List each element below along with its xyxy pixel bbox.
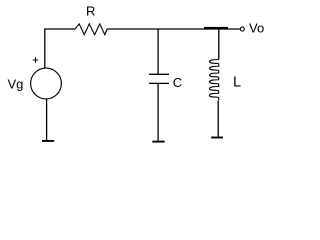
svg-text:C: C xyxy=(173,75,182,90)
svg-text:R: R xyxy=(86,4,95,19)
svg-text:Vg: Vg xyxy=(8,76,24,91)
svg-text:Vo: Vo xyxy=(249,20,264,35)
svg-text:L: L xyxy=(233,74,241,90)
